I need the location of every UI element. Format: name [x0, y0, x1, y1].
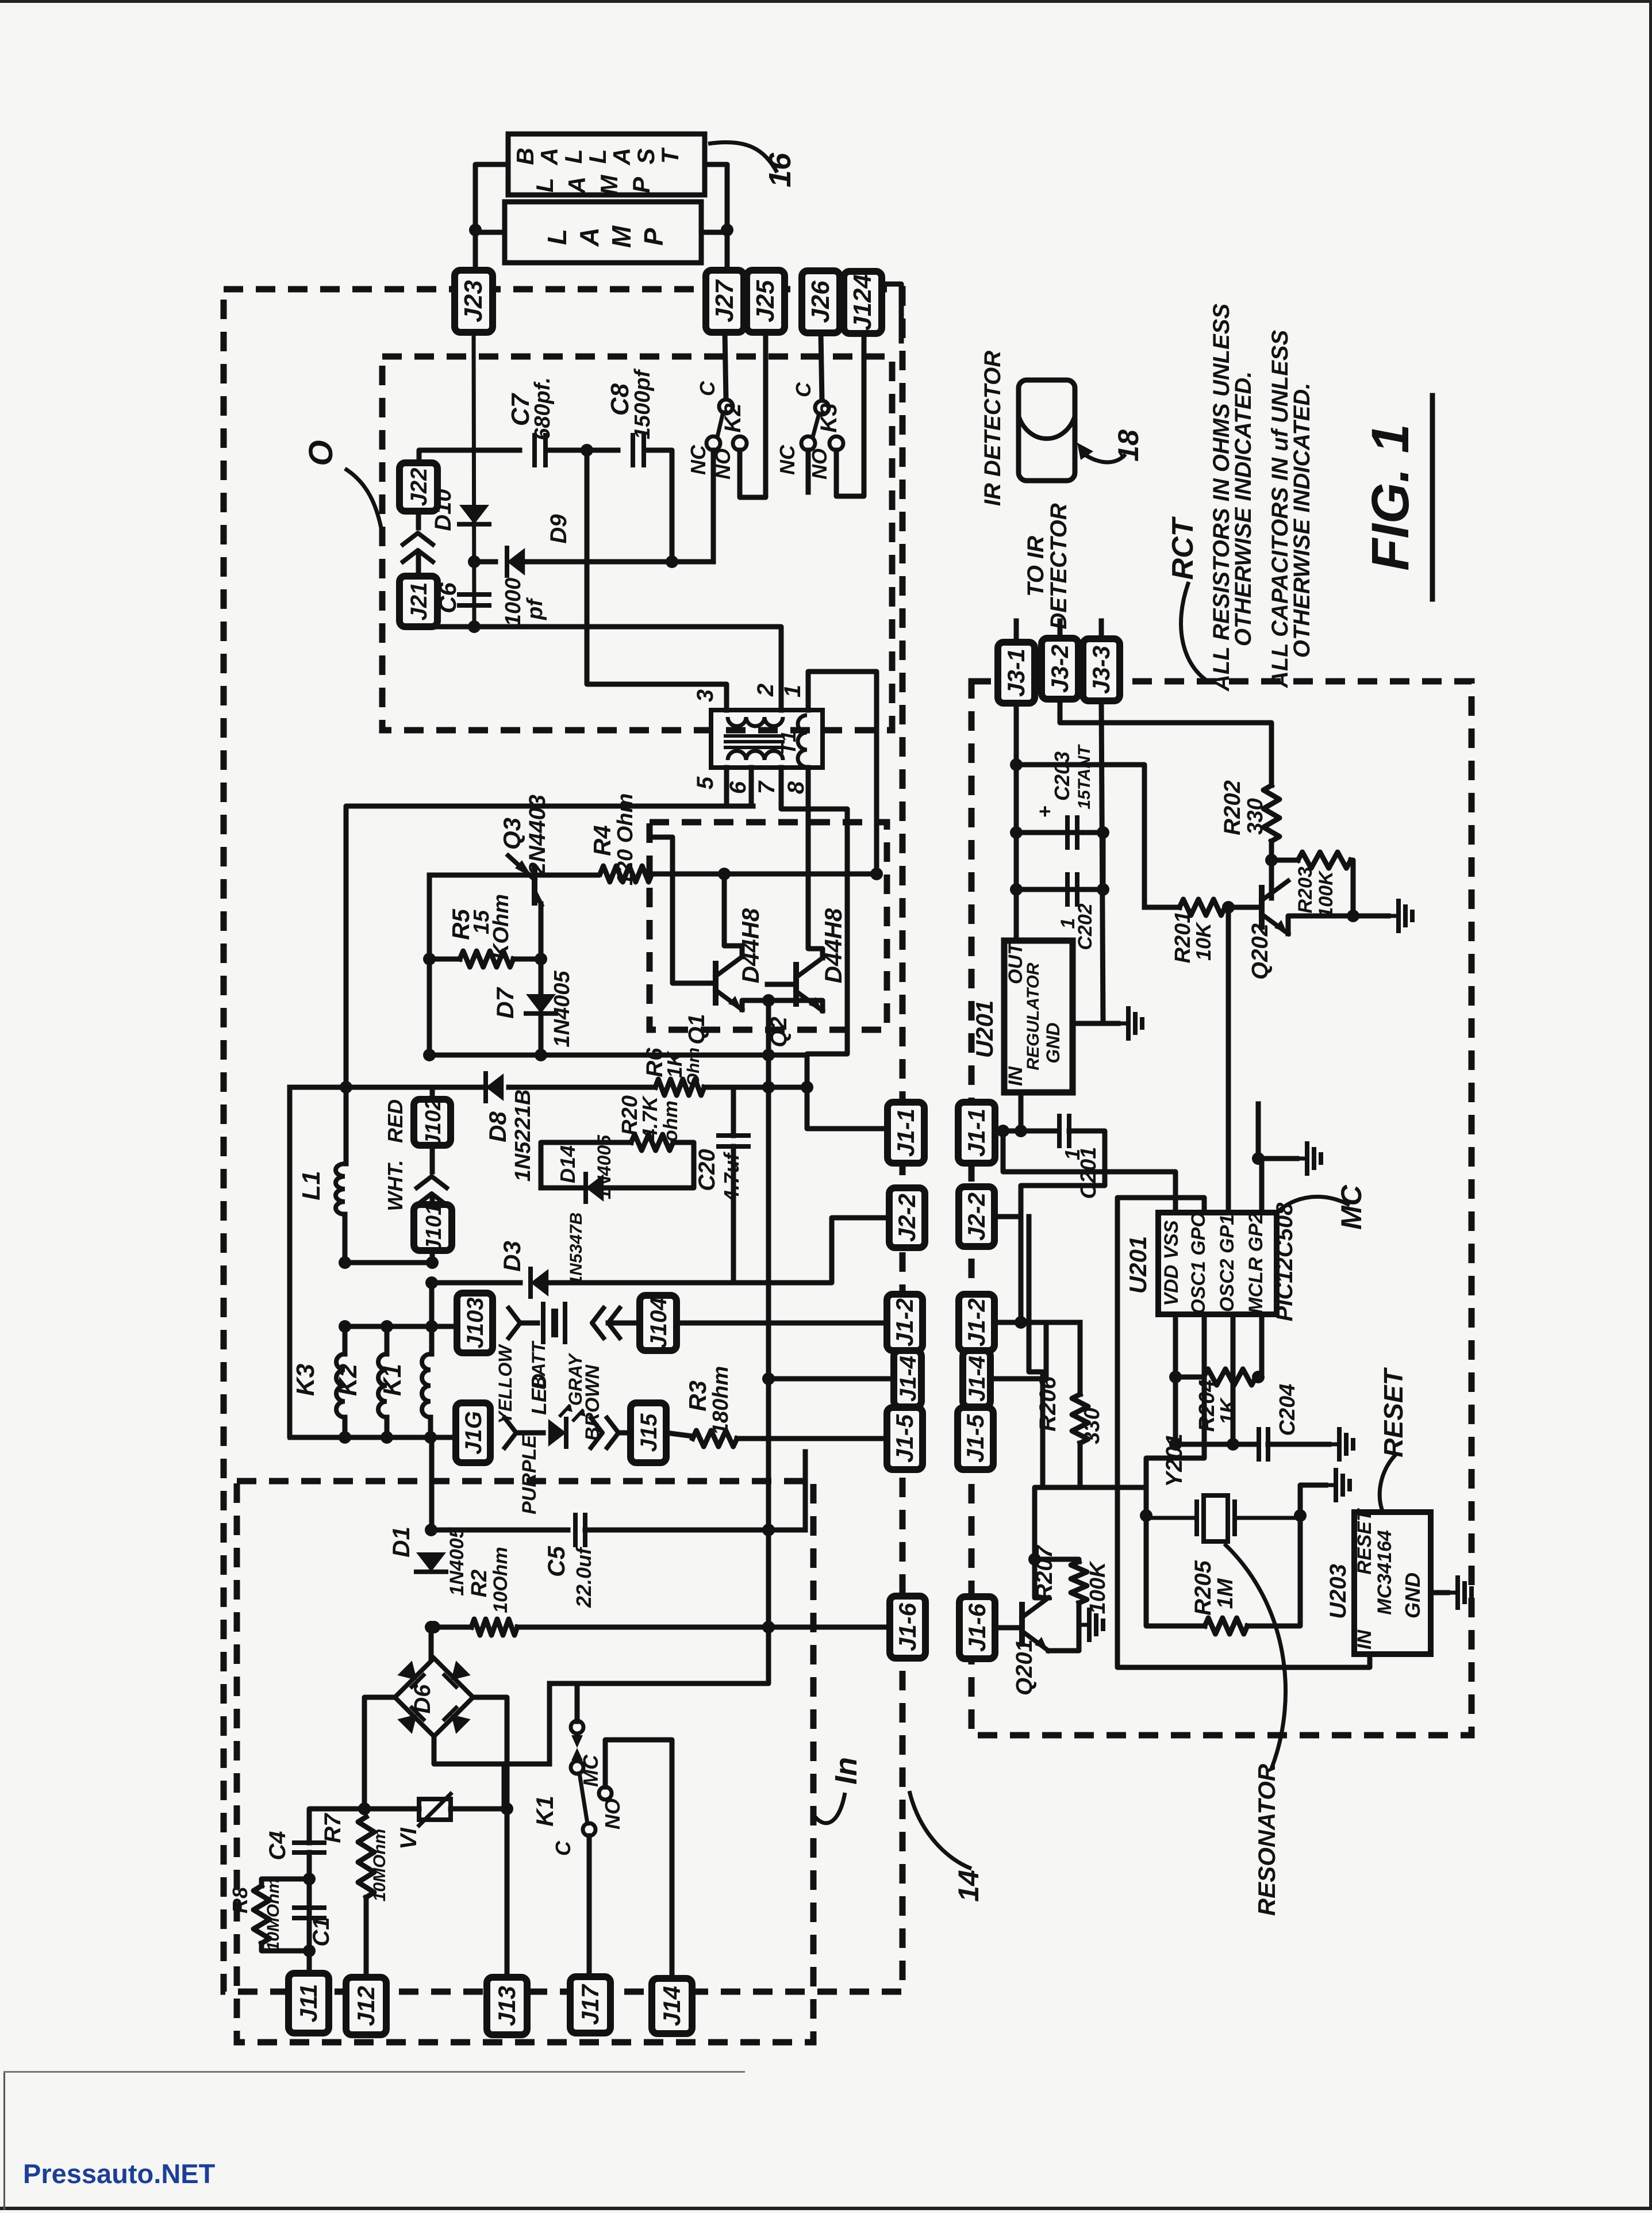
reset IC U203 box: [1354, 1512, 1431, 1654]
svg-text:L: L: [560, 149, 587, 164]
wire R207 gnd: [1077, 1603, 1082, 1625]
arrow J103 right: [509, 1308, 520, 1338]
transistor Q202: [1262, 881, 1288, 934]
wire bridge bottom: [434, 1736, 550, 1764]
wire c5 up: [803, 1452, 808, 1530]
label Q201: [1012, 1639, 1037, 1696]
node R6 1404: [801, 1081, 813, 1094]
diode D10: [459, 505, 489, 524]
wire K2 NO to J25: [740, 332, 766, 497]
node R5 right: [535, 953, 547, 965]
svg-text:L1: L1: [297, 1171, 325, 1200]
connector J27: [706, 270, 744, 332]
label RCT: [1166, 516, 1200, 580]
svg-text:330: 330: [1080, 1407, 1104, 1444]
node bus K3: [339, 1431, 351, 1444]
relay coil K1: [422, 1354, 431, 1417]
wire D8 row b: [509, 1085, 655, 1090]
svg-text:J1-5: J1-5: [962, 1414, 989, 1463]
wire J26 to K3: [821, 333, 822, 400]
wire D1 to bridge: [429, 1627, 434, 1658]
svg-text:K1: K1: [531, 1796, 558, 1827]
svg-text:J1-5: J1-5: [891, 1414, 918, 1463]
label R203: [1294, 866, 1316, 913]
connector J2-2 left: [889, 1188, 925, 1248]
svg-text:D14: D14: [556, 1145, 579, 1183]
wire Q3 down: [539, 904, 544, 994]
wire L1 bottom: [343, 1214, 348, 1263]
wire T1 pin5-6 join: [727, 804, 753, 809]
wire J103 batt: [520, 1321, 537, 1326]
leader O: [345, 469, 381, 528]
label T1 pin5: [693, 776, 718, 789]
wire reg gnd: [1073, 1021, 1103, 1026]
connector J26: [802, 271, 840, 333]
wire T1 pin1: [808, 672, 877, 874]
svg-text:J3-3: J3-3: [1088, 646, 1115, 694]
wire R201 right: [1225, 905, 1262, 910]
label T1 pin3: [693, 689, 718, 702]
svg-text:J25: J25: [751, 280, 779, 323]
svg-text:Q201: Q201: [1012, 1639, 1037, 1696]
svg-text:1N4005: 1N4005: [594, 1134, 614, 1199]
transistor Q3: [508, 856, 541, 905]
connector J1-4 left: [894, 1351, 921, 1407]
label K3 coil: [291, 1364, 320, 1396]
svg-text:K2: K2: [720, 403, 746, 432]
node 2307 K3: [339, 1320, 351, 1333]
wire R5 right: [513, 957, 541, 962]
svg-text:A: A: [574, 227, 604, 247]
capacitor C203: [1067, 818, 1077, 847]
node C202 l: [1010, 883, 1023, 896]
svg-text:J104: J104: [646, 1298, 671, 1349]
scan border bottom: [0, 2207, 1652, 2210]
label R7: [320, 1813, 345, 1843]
wire J124 corner: [882, 284, 901, 341]
wire J16 LED: [516, 1430, 543, 1436]
svg-text:J23: J23: [459, 280, 487, 322]
wire GP2 gnd: [1262, 1159, 1297, 1213]
wire bus 2500 main: [290, 1435, 456, 1440]
svg-text:R203: R203: [1294, 866, 1316, 913]
transformer T1 windings: [725, 715, 807, 767]
svg-text:D3: D3: [498, 1241, 525, 1272]
wire J101 bottom: [430, 1251, 435, 1263]
LED: [548, 1404, 586, 1447]
svg-text:RESONATOR: RESONATOR: [1253, 1763, 1280, 1916]
wire R202 down: [1269, 841, 1274, 898]
label Q1: [684, 1014, 709, 1044]
svg-text:MCLR GP2: MCLR GP2: [1245, 1213, 1267, 1314]
note resistors 2: [1231, 371, 1256, 647]
svg-text:NO: NO: [808, 448, 831, 480]
resistor R6: [655, 1079, 704, 1095]
node 2307 K2: [381, 1320, 393, 1333]
wire R2 row: [431, 1625, 471, 1630]
svg-text:R207: R207: [1032, 1544, 1057, 1600]
capacitor C8: [633, 435, 644, 465]
wire D9 row: [474, 559, 495, 565]
wire 5V branch: [1016, 765, 1144, 907]
svg-text:OSC2 GP1: OSC2 GP1: [1216, 1214, 1238, 1312]
label R201 value: [1192, 921, 1215, 961]
svg-text:Y201: Y201: [1162, 1433, 1187, 1487]
svg-text:K3: K3: [291, 1364, 320, 1396]
svg-text:1000: 1000: [501, 578, 525, 627]
connector J3-2: [1042, 638, 1078, 699]
wire gp2 stub: [1256, 1104, 1261, 1159]
wire J13 stub: [505, 1809, 510, 1974]
leader RESET: [1380, 1455, 1396, 1511]
wire C7 node down: [587, 450, 727, 710]
arrow J16 right: [505, 1418, 516, 1448]
node R207 top: [1028, 1553, 1041, 1566]
connector J1-2 left: [887, 1294, 923, 1351]
connector J124: [844, 271, 882, 333]
label K2 C: [696, 381, 719, 396]
svg-text:1500pf: 1500pf: [631, 368, 655, 439]
wire R206 drop: [1078, 1322, 1083, 1394]
label R201: [1171, 911, 1195, 964]
wire J102 J101: [430, 1145, 435, 1172]
leader RCT: [1181, 582, 1207, 681]
svg-text:GND: GND: [1043, 1022, 1063, 1063]
wire J21 stub: [416, 555, 421, 577]
switch K1 contact: [571, 1721, 612, 1836]
label R2 value: [490, 1547, 512, 1613]
label U203: [1326, 1564, 1351, 1619]
svg-text:180hm: 180hm: [709, 1366, 733, 1435]
node gp2: [1252, 1152, 1265, 1165]
connector J15: [631, 1403, 666, 1463]
resistor R8: [253, 1886, 270, 1943]
label C1: [309, 1917, 334, 1946]
wire row B: [429, 1053, 807, 1058]
node bus C5: [762, 1524, 775, 1536]
node D3 J101: [425, 1276, 438, 1289]
node VI left: [358, 1802, 371, 1815]
connector J16: [456, 1403, 490, 1463]
node C1 top: [303, 1873, 316, 1885]
label T1: [777, 731, 800, 755]
label IR DETECTOR: [980, 351, 1005, 507]
wire R6 right: [704, 1085, 807, 1090]
svg-text:22.0uf: 22.0uf: [572, 1546, 596, 1608]
wire bridge right: [473, 1697, 507, 1809]
label D8 type: [511, 1090, 535, 1182]
svg-text:A: A: [608, 148, 635, 166]
connector J102: [414, 1098, 451, 1147]
label K1 switch: [531, 1796, 558, 1827]
svg-text:L: L: [531, 178, 558, 193]
label C202: [1074, 903, 1096, 950]
dashed box RCT remote control: [971, 681, 1472, 1735]
wire J3-3 up: [1099, 621, 1104, 639]
label R204 value: [1216, 1397, 1239, 1425]
label 16: [763, 152, 797, 187]
resistor R205: [1205, 1618, 1247, 1634]
wire T1 pin5: [346, 768, 727, 1087]
label 14: [952, 1870, 985, 1902]
wire C203 row: [1016, 830, 1103, 835]
svg-text:J13: J13: [493, 1986, 520, 2026]
wire C4 branch: [309, 1809, 364, 1843]
battery BATT: [543, 1304, 565, 1342]
label WHT: [383, 1160, 407, 1211]
svg-text:R7: R7: [320, 1813, 345, 1843]
node R204 l: [1169, 1371, 1182, 1383]
node bus R2: [762, 1621, 775, 1633]
wire K1 C down: [587, 1836, 592, 1977]
label R6 value2: [684, 1048, 703, 1087]
wire row 2307: [345, 1324, 454, 1329]
label C7 value: [531, 377, 555, 440]
node R4 Q1: [718, 868, 731, 880]
label C20 value: [720, 1152, 743, 1202]
node 2196 L1: [339, 1256, 351, 1269]
svg-text:R8: R8: [228, 1887, 252, 1913]
node R6 bus: [762, 1081, 775, 1094]
label R202 value: [1243, 798, 1267, 834]
label K3: [816, 403, 842, 432]
connector J23: [455, 270, 493, 332]
node C7 C8: [581, 444, 593, 457]
leader In: [815, 1793, 845, 1823]
svg-text:C: C: [792, 382, 815, 397]
svg-text:680pf.: 680pf.: [531, 377, 555, 440]
label D7 type: [550, 971, 574, 1048]
wire D14 left: [541, 1186, 586, 1191]
wire R8 bracket bottom: [262, 1943, 309, 1951]
transistor Q2: [796, 958, 823, 1011]
resistor R20: [631, 1134, 673, 1150]
svg-text:J1-4: J1-4: [965, 1356, 990, 1402]
wire C4 down: [307, 1853, 312, 1974]
scan border top: [0, 0, 1652, 3]
wire J104 to J1-2: [677, 1321, 887, 1326]
wire K1 NO up: [605, 1740, 672, 1977]
svg-text:1N4005: 1N4005: [446, 1527, 468, 1595]
label K3 C: [792, 382, 815, 397]
svg-text:J124: J124: [848, 274, 877, 331]
arrow pair J22-J21: [403, 533, 433, 562]
wire C202 row: [1016, 887, 1103, 892]
label BATT: [528, 1338, 549, 1389]
connector J1-4 right: [963, 1351, 990, 1407]
wire K2 top: [385, 1326, 390, 1354]
ground Q201: [1079, 1610, 1103, 1640]
wire J1-2R row: [995, 1320, 1080, 1325]
connector J21: [399, 576, 437, 627]
ground C204: [1329, 1429, 1353, 1459]
wire J101 top stub: [430, 1198, 435, 1205]
svg-text:J1-1: J1-1: [892, 1109, 919, 1157]
node R202 R203: [1265, 854, 1278, 866]
node emitter join: [762, 994, 775, 1007]
capacitor C6: [459, 595, 489, 605]
svg-text:J103: J103: [463, 1298, 488, 1349]
wire R20 bracket r: [604, 1142, 694, 1188]
node C203 l: [1010, 826, 1023, 839]
regulator U201 text: [1005, 941, 1063, 1086]
node R7 top: [358, 1802, 371, 1815]
node Y201 l: [1140, 1509, 1152, 1522]
svg-text:2N4403: 2N4403: [525, 795, 550, 876]
label K3 NC: [775, 444, 799, 475]
svg-text:D6: D6: [410, 1684, 435, 1714]
label D10: [431, 489, 456, 531]
wire T1 pin7: [781, 768, 888, 1129]
resistor R204: [1204, 1369, 1256, 1385]
ballast lamp box text: [512, 147, 683, 195]
svg-text:T1: T1: [777, 731, 800, 755]
svg-text:C5: C5: [543, 1546, 570, 1577]
connector J3-1: [998, 642, 1035, 703]
wire J3-3 gnd2: [1101, 833, 1106, 889]
node D9 right: [666, 555, 678, 568]
label YELLOW: [495, 1344, 516, 1424]
wire Q1 Q2 emitters: [742, 1000, 769, 1010]
svg-text:J1-1: J1-1: [963, 1109, 990, 1157]
connector J14: [652, 1978, 692, 2034]
label D3: [498, 1241, 525, 1272]
svg-text:C8: C8: [606, 383, 634, 416]
svg-text:R206: R206: [1035, 1376, 1061, 1431]
switch K3: [801, 401, 843, 450]
node reg out: [1015, 1125, 1027, 1137]
label R207: [1032, 1544, 1057, 1600]
svg-text:T: T: [656, 147, 683, 164]
label R207 value: [1086, 1560, 1110, 1614]
node bus K1: [424, 1431, 437, 1444]
label Q3 type: [525, 795, 550, 876]
svg-text:R3: R3: [684, 1380, 711, 1412]
note resistors 1: [1209, 304, 1234, 692]
svg-text:C1: C1: [309, 1917, 334, 1946]
node rowB left: [423, 1049, 436, 1061]
svg-text:C203: C203: [1050, 751, 1074, 801]
resistor R5: [460, 951, 513, 967]
svg-text:O: O: [302, 440, 340, 466]
svg-text:C: C: [551, 1840, 575, 1856]
label R4 value: [613, 793, 637, 886]
label O: [302, 440, 340, 466]
arrow batt right: [592, 1308, 620, 1338]
connector J103: [457, 1293, 493, 1353]
svg-text:1M: 1M: [1213, 1578, 1238, 1609]
wire C7 bus: [419, 450, 520, 463]
label D14 type: [594, 1134, 614, 1199]
wire R201 left: [1144, 905, 1180, 910]
svg-text:WHT.: WHT.: [383, 1160, 407, 1211]
svg-text:M: M: [606, 225, 636, 248]
connector J22: [399, 463, 437, 511]
svg-text:100K: 100K: [1315, 870, 1337, 918]
svg-text:15TANT: 15TANT: [1075, 744, 1094, 810]
svg-text:U201: U201: [971, 1000, 998, 1058]
svg-text:10Ohm: 10Ohm: [490, 1547, 512, 1613]
wire C204 gnd: [1268, 1442, 1329, 1447]
svg-text:S: S: [632, 148, 659, 164]
svg-text:U201: U201: [1124, 1236, 1151, 1294]
label R3: [684, 1380, 711, 1412]
connector J1-2 right: [959, 1294, 994, 1351]
lamp box: [505, 202, 701, 263]
capacitor C204: [1259, 1429, 1268, 1459]
dashed box IV inverter section: [650, 822, 887, 1030]
varistor VI: [419, 1794, 451, 1825]
wire VI row: [364, 1807, 419, 1812]
node osc2: [1227, 1438, 1239, 1451]
svg-text:Ohm: Ohm: [684, 1048, 703, 1087]
resistor R202: [1263, 785, 1280, 841]
svg-text:R202: R202: [1220, 780, 1245, 835]
svg-text:7: 7: [754, 780, 779, 794]
svg-text:P: P: [639, 228, 669, 246]
label R5 value: [470, 910, 494, 934]
wire D9 row right: [524, 559, 713, 565]
wire J3-2 up: [1058, 621, 1063, 638]
label Q202: [1247, 923, 1273, 980]
wire R20 bracket: [541, 1142, 631, 1188]
label Y201: [1162, 1433, 1187, 1487]
wire J15 R3: [666, 1433, 693, 1436]
label K2 NO: [711, 448, 735, 480]
node R203 emitter: [1347, 910, 1359, 922]
transistor Q201: [1022, 1598, 1048, 1651]
svg-text:VI: VI: [396, 1827, 421, 1850]
regulator U201 box: [1004, 941, 1073, 1092]
svg-text:K1: K1: [378, 1364, 406, 1396]
leader 16: [708, 142, 777, 172]
label T1 pin8: [783, 781, 809, 794]
label T1 pin7: [754, 780, 779, 794]
wire K1 down to D1: [429, 1437, 435, 1529]
svg-text:J1-6: J1-6: [894, 1602, 921, 1651]
svg-text:100K: 100K: [1086, 1560, 1110, 1614]
wire Q202 emitter row: [1288, 916, 1388, 934]
connector J1-1 left: [888, 1102, 924, 1163]
svg-text:IN: IN: [1354, 1629, 1376, 1650]
label PURPLE: [518, 1435, 540, 1514]
node 2307 K1: [425, 1320, 438, 1333]
svg-text:330: 330: [1243, 798, 1267, 834]
arrow LED right: [591, 1418, 618, 1448]
svg-text:ohm: ohm: [660, 1100, 682, 1142]
svg-text:J26: J26: [806, 281, 835, 323]
wire VI row b: [451, 1807, 507, 1812]
capacitor C201: [1059, 1116, 1069, 1146]
label U201 mc: [1124, 1236, 1151, 1294]
node c204: [1169, 1438, 1182, 1451]
capacitor C202: [1067, 875, 1077, 904]
wire MCLR down: [1258, 1314, 1262, 1377]
node bus J1-4: [762, 1372, 775, 1385]
ground U203: [1447, 1578, 1472, 1608]
wire C5 right: [585, 1528, 805, 1533]
svg-text:RED: RED: [383, 1099, 407, 1143]
svg-text:Q1: Q1: [684, 1014, 709, 1044]
wire Q1 base loop: [651, 837, 716, 983]
ballast lamp box: [508, 134, 705, 195]
svg-text:NC: NC: [775, 444, 799, 475]
node gnd J1-2: [1015, 1316, 1027, 1329]
wire D1 row right: [431, 1528, 568, 1533]
wire J22 stub: [416, 511, 421, 528]
svg-text:120 Ohm: 120 Ohm: [613, 793, 637, 886]
node D1 bottom: [425, 1621, 437, 1633]
